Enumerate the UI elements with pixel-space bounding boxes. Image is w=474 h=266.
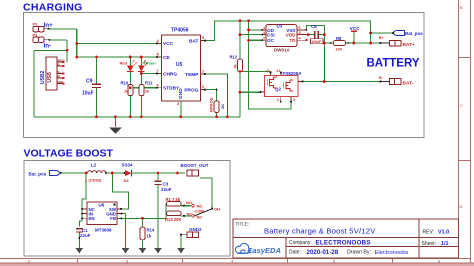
svg-text:100: 100	[336, 48, 342, 52]
svg-text:22uF: 22uF	[80, 233, 91, 238]
svg-text:2: 2	[277, 98, 279, 102]
svg-text:GND2: GND2	[189, 227, 202, 232]
svg-text:Drawn By:: Drawn By:	[347, 250, 371, 256]
svg-text:OH: OH	[214, 207, 220, 212]
svg-text:D2: D2	[124, 178, 130, 183]
svg-text:2: 2	[263, 37, 265, 41]
svg-text:Bat_pos: Bat_pos	[405, 31, 423, 36]
svg-text:L (CD32): L (CD32)	[85, 178, 102, 183]
svg-text:1k: 1k	[147, 234, 152, 239]
svg-text:C9: C9	[86, 79, 93, 85]
svg-text:1: 1	[263, 26, 265, 30]
svg-text:U3: U3	[277, 24, 283, 29]
svg-text:R10: R10	[121, 81, 129, 86]
svg-text:DW01A: DW01A	[274, 48, 291, 53]
svg-text:1/1: 1/1	[441, 241, 449, 247]
svg-text:BAT: BAT	[189, 38, 199, 44]
svg-text:L2: L2	[91, 163, 97, 168]
svg-text:s1: s1	[277, 69, 281, 73]
svg-text:C3: C3	[163, 182, 169, 187]
svg-text:PROG: PROG	[184, 87, 198, 93]
svg-text:R1 7.5k: R1 7.5k	[166, 197, 181, 202]
svg-text:TITLE:: TITLE:	[236, 222, 250, 227]
svg-text:NO: NO	[186, 200, 192, 205]
svg-text:USB: USB	[47, 72, 53, 83]
svg-text:100nF: 100nF	[311, 40, 321, 44]
svg-text:OC: OC	[267, 38, 275, 43]
svg-text:P1: P1	[33, 32, 39, 37]
svg-text:2K: 2K	[220, 104, 225, 109]
svg-text:EN: EN	[89, 216, 95, 221]
svg-text:3: 3	[126, 260, 128, 264]
svg-text:5: 5	[299, 31, 301, 35]
svg-text:STDBY: STDBY	[163, 86, 180, 92]
svg-text:SS34: SS34	[122, 163, 134, 168]
svg-text:TEMP: TEMP	[185, 72, 199, 78]
svg-text:FS8205A: FS8205A	[283, 71, 303, 76]
svg-text:R12: R12	[230, 55, 238, 60]
svg-text:BATTERY: BATTERY	[367, 58, 420, 70]
svg-text:10uF: 10uF	[82, 91, 94, 97]
svg-text:VDD: VDD	[286, 33, 296, 38]
svg-text:3: 3	[293, 98, 295, 102]
svg-text:VCC: VCC	[163, 41, 174, 47]
svg-text:GND: GND	[58, 80, 64, 84]
svg-text:3: 3	[263, 31, 265, 35]
svg-text:Sheet:: Sheet:	[422, 241, 436, 247]
svg-text:NC: NC	[187, 212, 193, 217]
svg-text:NC: NC	[197, 215, 203, 220]
svg-text:MT3608: MT3608	[95, 228, 112, 233]
svg-text:TD: TD	[289, 38, 296, 43]
svg-text:P2: P2	[33, 22, 39, 27]
svg-text:Battery charge & Boost 5V/12V: Battery charge & Boost 5V/12V	[264, 227, 376, 236]
svg-text:D: D	[460, 205, 463, 209]
svg-text:B+: B+	[379, 36, 384, 40]
svg-text:R11: R11	[145, 81, 153, 86]
svg-text:R13 20K: R13 20K	[165, 217, 182, 222]
svg-text:4: 4	[231, 260, 233, 264]
svg-text:Red: Red	[120, 61, 128, 66]
svg-text:C6: C6	[311, 24, 317, 29]
svg-text:BOOST_OUT: BOOST_OUT	[181, 163, 209, 168]
svg-text:Q2: Q2	[275, 87, 282, 92]
svg-text:FB: FB	[110, 216, 116, 221]
svg-text:CHRG: CHRG	[163, 71, 177, 77]
svg-text:V1.0: V1.0	[438, 229, 449, 235]
svg-text:BAT+: BAT+	[403, 42, 416, 48]
svg-text:Green: Green	[144, 61, 156, 66]
svg-text:U6: U6	[99, 203, 105, 208]
svg-text:6: 6	[299, 26, 301, 30]
svg-text:In+: In+	[44, 22, 54, 29]
svg-text:RPROG: RPROG	[209, 97, 214, 112]
svg-text:v1: v1	[266, 69, 270, 73]
svg-text:Company:: Company:	[289, 240, 312, 246]
svg-text:EasyEDA: EasyEDA	[247, 246, 281, 255]
svg-text:5: 5	[333, 260, 335, 264]
svg-text:U5: U5	[176, 62, 183, 68]
svg-text:ELECTRONOOBS: ELECTRONOOBS	[316, 240, 371, 247]
svg-text:GND: GND	[178, 88, 184, 99]
svg-text:CE: CE	[163, 55, 170, 61]
svg-text:2: 2	[28, 260, 30, 264]
svg-text:22uF: 22uF	[161, 187, 172, 192]
svg-text:BAT-: BAT-	[403, 80, 414, 86]
svg-text:REV:: REV:	[423, 229, 434, 235]
svg-text:R14: R14	[147, 228, 155, 233]
svg-text:COM: COM	[195, 209, 205, 214]
svg-text:TP4056: TP4056	[171, 28, 189, 34]
svg-text:CHARGING: CHARGING	[23, 2, 83, 14]
svg-text:VBUS: VBUS	[58, 59, 65, 63]
svg-text:Electronoobs: Electronoobs	[375, 250, 409, 256]
svg-text:CSI: CSI	[267, 33, 275, 38]
svg-text:D-: D-	[58, 63, 61, 67]
svg-text:6: 6	[438, 260, 440, 264]
svg-text:ID: ID	[58, 75, 61, 79]
svg-text:USB2: USB2	[40, 70, 46, 84]
svg-text:Date:: Date:	[289, 250, 301, 256]
svg-text:Bat_pos: Bat_pos	[29, 172, 47, 177]
svg-text:VOLTAGE BOOST: VOLTAGE BOOST	[24, 148, 114, 160]
svg-text:R8: R8	[336, 36, 342, 41]
svg-text:2020-01-28: 2020-01-28	[307, 249, 339, 256]
svg-text:C: C	[460, 104, 463, 108]
svg-text:D+: D+	[58, 70, 62, 74]
svg-text:In-: In-	[44, 42, 52, 49]
